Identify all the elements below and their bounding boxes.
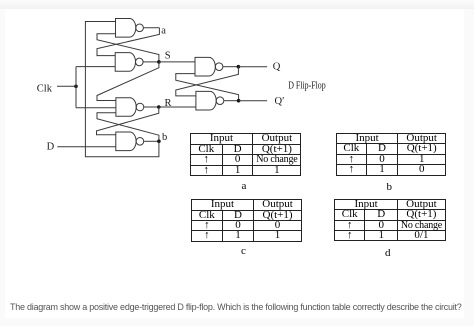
function table c	[191, 199, 302, 242]
label a (table)	[242, 180, 247, 192]
svg-text:S: S	[165, 51, 171, 62]
wire Clk to G3 middle input	[76, 107, 116, 109]
NAND gate G6	[196, 91, 224, 110]
node R	[157, 105, 161, 109]
NAND gate G5	[195, 57, 223, 76]
svg-text:Q′: Q′	[275, 96, 285, 107]
wire a feedback diagonal to G2 upper input	[97, 28, 159, 56]
wire G2 output to node S	[143, 61, 159, 63]
label a	[161, 26, 166, 37]
wire S to G5 upper input	[159, 61, 195, 63]
wire G5 lower input bracket from Q'	[176, 74, 239, 101]
wire Clk vertical distribution	[75, 67, 77, 108]
label Q	[273, 61, 281, 72]
question text	[10, 302, 474, 312]
wire G1 output to bend a	[143, 27, 159, 29]
background top band	[0, 0, 474, 9]
label b (table)	[387, 181, 393, 193]
wire G4 output to node b	[144, 140, 159, 142]
label b	[162, 132, 167, 143]
label R	[165, 98, 172, 109]
function table b	[336, 133, 446, 176]
label Q'	[275, 96, 285, 107]
function table d	[334, 199, 446, 242]
wire Clk input lead	[57, 85, 76, 87]
svg-text:Q: Q	[273, 61, 281, 72]
wire R diagonal to G4 upper input	[97, 107, 159, 135]
label D	[47, 141, 55, 152]
wire G3 output to node R	[144, 106, 159, 108]
label Clk	[37, 84, 53, 95]
wire Q output	[238, 66, 267, 68]
svg-text:b: b	[162, 132, 167, 143]
wire S diagonal to G3 upper input	[97, 62, 159, 101]
wire Clk to G2 lower input	[76, 66, 115, 68]
label S	[165, 51, 171, 62]
wire b feedback to G1 top input	[85, 22, 158, 157]
svg-text:D: D	[47, 141, 55, 152]
label d (table)	[385, 247, 391, 259]
wire G6 output to node Q'	[224, 100, 239, 102]
label D Flip-Flop	[288, 80, 326, 91]
svg-text:Clk: Clk	[37, 84, 53, 95]
svg-text:D Flip-Flop: D Flip-Flop	[288, 80, 326, 91]
node Q' junction	[237, 99, 241, 103]
NAND gate G4	[116, 132, 144, 151]
NAND gate G1	[116, 19, 144, 38]
node S	[157, 60, 161, 64]
node Clk junction	[74, 85, 78, 89]
wire G3 lower input bracket from b	[97, 113, 159, 142]
node Q junction	[237, 65, 241, 69]
label c (table)	[241, 245, 246, 257]
wire Q' output	[239, 100, 268, 102]
NAND gate G2	[115, 53, 143, 72]
wire Q feedback diagonal to G6 upper input	[176, 67, 239, 96]
wire G5 output to node Q	[223, 66, 239, 68]
function table a	[190, 133, 302, 176]
wire R to G6 lower input	[159, 106, 196, 108]
wire G1 lower input bracket from S	[97, 34, 159, 62]
node b	[157, 140, 161, 144]
svg-text:a: a	[161, 26, 166, 37]
NAND gate G3	[116, 98, 144, 117]
wire D input to G4 lower input	[57, 146, 116, 148]
